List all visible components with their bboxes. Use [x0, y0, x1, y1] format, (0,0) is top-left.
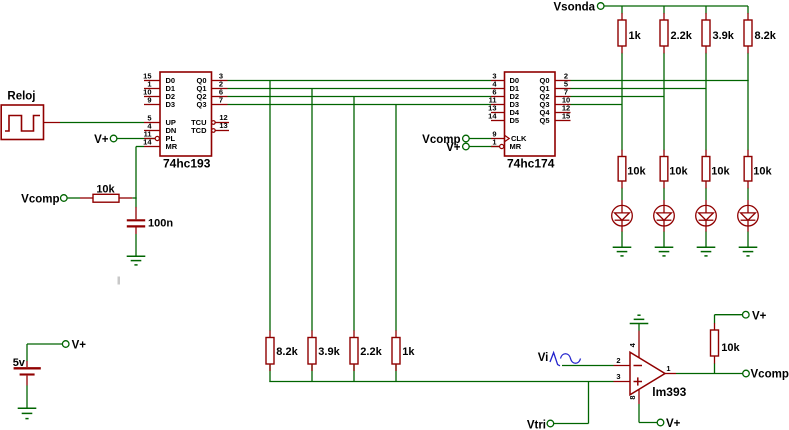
svg-text:14: 14	[488, 112, 497, 121]
svg-text:1k: 1k	[629, 30, 642, 42]
svg-text:8.2k: 8.2k	[276, 346, 298, 358]
svg-text:10k: 10k	[721, 342, 740, 354]
svg-text:8.2k: 8.2k	[755, 30, 777, 42]
svg-text:9: 9	[147, 96, 151, 105]
svg-text:3: 3	[616, 372, 620, 381]
svg-text:MR: MR	[166, 142, 178, 151]
svg-text:D3: D3	[166, 100, 176, 109]
svg-text:V+: V+	[666, 418, 681, 430]
svg-text:14: 14	[143, 138, 152, 147]
svg-text:10k: 10k	[669, 166, 688, 178]
svg-text:1: 1	[492, 138, 496, 147]
svg-text:D5: D5	[510, 116, 520, 125]
svg-text:V+: V+	[446, 142, 461, 154]
svg-text:10k: 10k	[711, 166, 730, 178]
svg-text:Reloj: Reloj	[7, 91, 35, 103]
svg-text:2.2k: 2.2k	[671, 30, 693, 42]
svg-text:Q5: Q5	[539, 116, 549, 125]
svg-text:MR: MR	[510, 142, 522, 151]
svg-text:3.9k: 3.9k	[318, 346, 340, 358]
svg-text:10k: 10k	[96, 184, 115, 196]
svg-text:13: 13	[219, 121, 227, 130]
svg-text:2: 2	[616, 356, 620, 365]
svg-text:2.2k: 2.2k	[360, 346, 382, 358]
svg-text:8: 8	[628, 395, 637, 399]
svg-text:V+: V+	[72, 339, 87, 351]
svg-text:lm393: lm393	[652, 385, 686, 399]
svg-text:74hc193: 74hc193	[163, 157, 211, 171]
svg-text:Vcomp: Vcomp	[21, 193, 59, 205]
svg-text:TCD: TCD	[191, 126, 207, 135]
svg-text:Vi: Vi	[538, 352, 549, 364]
svg-text:1: 1	[666, 364, 670, 373]
svg-text:1k: 1k	[402, 346, 415, 358]
svg-text:7: 7	[219, 96, 223, 105]
svg-text:Vtri: Vtri	[527, 420, 546, 430]
svg-text:Q3: Q3	[196, 100, 206, 109]
svg-text:10k: 10k	[627, 166, 646, 178]
svg-text:10k: 10k	[753, 166, 772, 178]
svg-text:100n: 100n	[148, 217, 173, 229]
svg-text:5v: 5v	[13, 357, 26, 369]
svg-text:V+: V+	[752, 311, 767, 323]
svg-text:3.9k: 3.9k	[713, 30, 735, 42]
svg-text:V+: V+	[94, 134, 109, 146]
svg-text:74hc174: 74hc174	[507, 156, 555, 170]
svg-text:15: 15	[562, 112, 570, 121]
svg-text:Vcomp: Vcomp	[751, 369, 789, 381]
svg-text:Vsonda: Vsonda	[554, 2, 596, 14]
